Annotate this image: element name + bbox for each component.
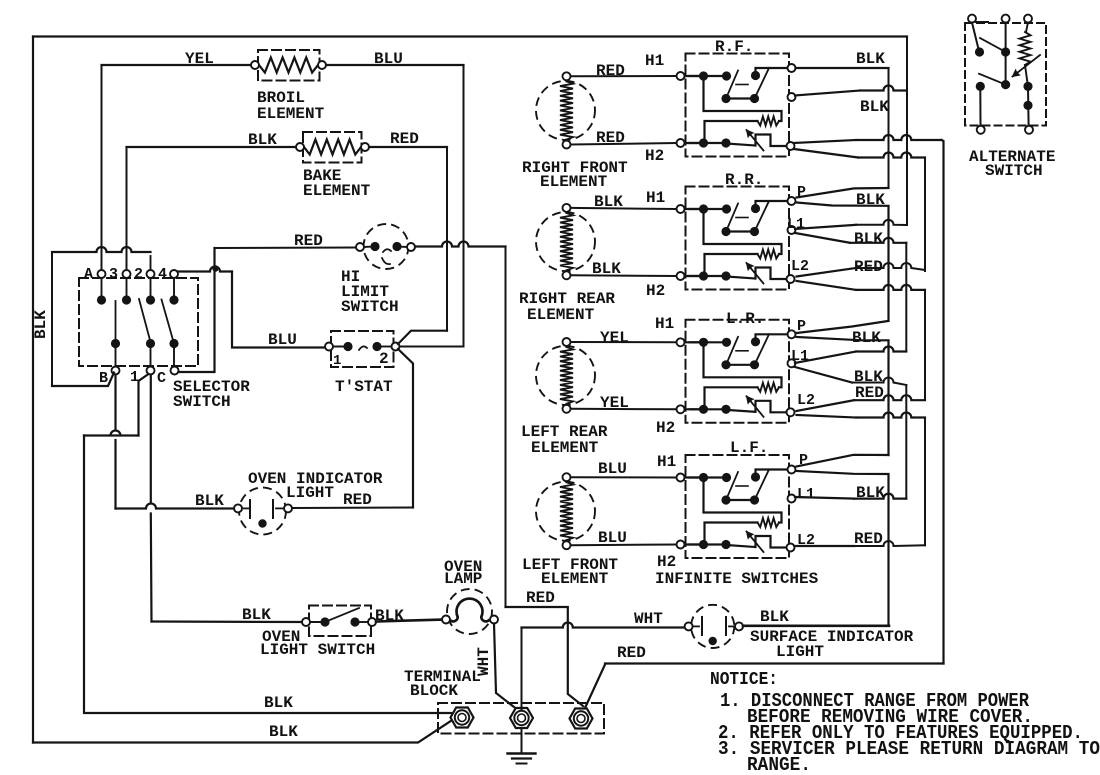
wire: R.F. L2 lower to bus x=925 (794, 149, 925, 158)
wire: t'stat terminal 2 branch up to bake RED (398, 331, 447, 344)
selector blades (116, 299, 175, 344)
wire labels BLK (592, 171, 763, 300)
label OVEN INDICATOR LIGHT (248, 470, 383, 502)
svg-text:BLK: BLK (269, 723, 298, 741)
svg-text:BLU: BLU (268, 331, 297, 349)
wire: R.R. L2 lower starts x=925 segment 2 (797, 281, 926, 400)
wire: selector B down to oven indicator (hop at y=435) (114, 375, 116, 509)
label RIGHT REAR ELEMENT (519, 290, 615, 324)
svg-text:A: A (84, 266, 93, 283)
R.F. terminal L2 (787, 142, 795, 150)
svg-text:WHT: WHT (634, 610, 663, 628)
resistor: BAKE ELEMENT (296, 132, 369, 163)
bus vertical x=925 segment 1 (924, 158, 926, 272)
wire: lamp to terminal lug 2 (494, 624, 514, 708)
selector top terminals A 3 2 4 (98, 256, 179, 296)
R.R. adjustment arrow (747, 263, 764, 284)
svg-text:H1: H1 (645, 52, 664, 70)
svg-text:H1: H1 (655, 315, 674, 333)
wire: element to R.F. H2 (571, 143, 677, 145)
component: OVEN LIGHT SWITCH (302, 606, 376, 637)
wire: element to L.F. H1 (571, 476, 677, 478)
svg-text:RED: RED (854, 258, 883, 276)
terminal lug 2 (404, 15, 1100, 775)
ground symbol below lug 2 (508, 730, 536, 764)
labels A 3 2 4 (84, 266, 167, 283)
labels 1 2 inside t'stat (333, 350, 389, 369)
node: selector feed wire (y=252) with hops (52, 247, 151, 252)
wire: L.F. L1 BLK joins x=906 seg3 end (795, 494, 906, 499)
svg-text:H1: H1 (657, 453, 676, 471)
wire: inner BLK vertical from selector feed (51, 252, 53, 386)
svg-text:RED: RED (617, 644, 646, 662)
svg-text:RED: RED (596, 62, 625, 80)
svg-text:RANGE.: RANGE. (747, 754, 811, 775)
svg-text:H2: H2 (646, 282, 665, 300)
wire labels YEL (600, 310, 764, 437)
wire: L.R. P lower starts x=888 segment 3 (797, 337, 889, 455)
wire: L.R. L2 upper RED joins x=925 seg2 end (797, 395, 926, 411)
svg-text:LIGHT: LIGHT (776, 643, 824, 661)
wire: R.R. L1 lower BLK starts x=906 segment 2 (795, 233, 906, 351)
svg-text:4: 4 (158, 266, 167, 283)
R.F. terminal P (788, 64, 796, 72)
L.R. adjustment arrow (747, 396, 764, 417)
wire: RED from bake element (369, 146, 447, 148)
wire: R.F. L2 upper to far bus (794, 135, 942, 143)
R.F. contacts and blades (686, 68, 789, 103)
svg-text:BLK: BLK (592, 260, 621, 278)
component: SURFACE INDICATOR LIGHT (685, 605, 743, 648)
L.F. contacts and blades (686, 470, 789, 505)
wire: RED bus elbow to lug 3 (506, 607, 584, 706)
svg-text:LAMP: LAMP (444, 570, 482, 588)
svg-text:RED: RED (343, 491, 372, 509)
svg-text:YEL: YEL (600, 329, 629, 347)
selector pole contacts (upper dots) (97, 295, 179, 304)
L.R. terminal P (788, 330, 796, 338)
svg-text:H2: H2 (657, 553, 676, 571)
L.R. H2 blade with adjust arrow (686, 401, 787, 414)
svg-text:BLK: BLK (32, 310, 50, 339)
wire: L.F. P lower starts x=888 segment 4 (797, 471, 889, 626)
wire: L.R. L1 upper joins x=906 seg2 end (795, 347, 906, 364)
component: ALTERNATE SWITCH dashed box (965, 23, 1046, 126)
svg-text:BLK: BLK (856, 484, 885, 502)
wire: BLK run to oven light switch (152, 620, 303, 623)
wire: R.R. L1 upper joins x=906 (795, 220, 906, 229)
component: OVEN LAMP (442, 589, 498, 634)
label BAKE ELEMENT (303, 167, 371, 200)
svg-text:H1: H1 (646, 189, 665, 207)
wire: selector 1 down to oven light switch (150, 375, 153, 622)
label OVEN LIGHT SWITCH (242, 606, 404, 659)
svg-text:BLK: BLK (195, 492, 224, 510)
component: HI LIMIT SWITCH (356, 224, 415, 269)
L.F. terminal H1 (677, 474, 700, 482)
svg-text:RED: RED (596, 129, 625, 147)
L.R. bimetal heater resistor (704, 342, 782, 409)
svg-text:L2: L2 (797, 392, 815, 409)
wire: L.F. P upper BLK joins x=888 seg3 end (797, 455, 889, 467)
svg-text:SWITCH: SWITCH (985, 162, 1043, 180)
wire: BLK to indicator (hop over oven-light drop) (116, 504, 235, 509)
label ALTERNATE SWITCH (969, 148, 1055, 180)
svg-text:RED: RED (294, 232, 323, 250)
wire: selector B blade to left BLK (52, 373, 114, 387)
svg-text:NOTICE:: NOTICE: (710, 670, 778, 690)
wire: element to R.F. H1 (571, 75, 677, 77)
label T'STAT (335, 378, 393, 396)
svg-text:L1: L1 (797, 486, 815, 503)
svg-text:LIGHT: LIGHT (286, 484, 334, 502)
selector bottom terminals B 1 C (112, 367, 179, 375)
labels P L1 L2 (R.R.) (787, 184, 815, 549)
wire: BLU vertical down to t'stat (463, 65, 465, 347)
alternate switch adjust arrow (1013, 55, 1041, 77)
R.R. terminal L2 (787, 275, 795, 283)
wire: t'stat terminal 2 down to oven indicator RED (398, 349, 413, 508)
wire: RED from indicator to t'stat riser (292, 507, 413, 510)
svg-text:BLOCK: BLOCK (410, 682, 458, 700)
selector lower contacts (111, 339, 179, 366)
wire: RED selector-to-hi-limit run (215, 247, 357, 250)
R.R. terminal P (788, 197, 796, 205)
svg-text:3: 3 (109, 266, 118, 283)
svg-text:L1: L1 (787, 216, 805, 233)
svg-text:2: 2 (134, 266, 143, 283)
L.R. terminal H1 (677, 338, 700, 346)
wire: element to L.R. H2 (571, 408, 677, 411)
svg-text:BLK: BLK (760, 608, 789, 626)
wire: selector C to RED riser (179, 248, 215, 372)
component: SELECTOR SWITCH dashed box (79, 278, 198, 366)
svg-text:ELEMENT: ELEMENT (531, 439, 599, 457)
svg-text:BLK: BLK (264, 694, 293, 712)
svg-text:BLK: BLK (854, 230, 883, 248)
svg-text:P: P (797, 184, 806, 201)
svg-text:BLK: BLK (860, 98, 889, 116)
wire: BLU from broil element (326, 64, 464, 66)
wire labels RED (596, 38, 753, 165)
label LEFT FRONT ELEMENT (522, 556, 618, 588)
wire: YEL corner down to selector A (101, 65, 103, 270)
wire: inner BLK vertical to lug 1 (84, 436, 456, 716)
R.F. adjustment arrow (747, 130, 764, 151)
infinite switch L.R. (dashed box) (686, 320, 790, 423)
R.F. terminal H2 (677, 139, 700, 147)
alternate switch pole 2 (976, 23, 1011, 126)
svg-text:ELEMENT: ELEMENT (541, 570, 609, 588)
svg-text:H2: H2 (645, 147, 664, 165)
heating element LR (dashed circle + resistor) (536, 338, 595, 413)
svg-text:RED: RED (390, 130, 419, 148)
wire: t'stat terminal 2 straight to broil BLU (400, 346, 464, 348)
label HI LIMIT SWITCH (341, 268, 399, 316)
wire: R.F. L1 BLK to bus (hop) (795, 86, 906, 96)
svg-text:YEL: YEL (600, 394, 629, 412)
wire: BLK oven light switch to lamp (376, 620, 446, 622)
L.F. H2 blade with adjust arrow (686, 536, 787, 549)
R.R. terminal H2 (677, 272, 700, 280)
wire: element to L.R. H1 (571, 341, 677, 343)
wire: lower-left run with hop over B wire (84, 431, 139, 436)
wire: top supply run L1 (border top) (33, 35, 907, 37)
wire: left border down (32, 37, 34, 743)
L.R. contacts and blades (686, 334, 789, 369)
bus vertical x=888 segment 1 (888, 68, 890, 188)
svg-text:BLK: BLK (852, 329, 881, 347)
wire: bottom BLK run to terminal block lug 1 (33, 720, 453, 743)
label OVEN LAMP (444, 558, 482, 588)
svg-text:RED: RED (855, 384, 884, 402)
infinite switch L.F. (dashed box) (686, 455, 790, 558)
L.R. terminal L1 (788, 359, 796, 367)
svg-text:H2: H2 (656, 419, 675, 437)
R.R. H2 blade with adjust arrow (686, 268, 787, 281)
wire: L.R. L2 lower starts x=925 segment 3 (797, 413, 926, 546)
svg-text:ELEMENT: ELEMENT (527, 306, 595, 324)
svg-text:BLU: BLU (598, 460, 627, 478)
terminal lug 3 (404, 15, 1100, 775)
wire: RED vertical down to t'stat branch (446, 147, 448, 331)
wire labels BLU (598, 439, 768, 571)
svg-text:T'STAT: T'STAT (335, 378, 393, 396)
L.F. terminal L2 (787, 544, 795, 552)
wire: BLK surface indicator to bus (743, 624, 889, 627)
wire: WHT from lug 2 to surface indicator (hop over RED) (522, 623, 685, 711)
infinite switch R.F. (dashed box) (686, 54, 790, 157)
wire: RED bus vertical (hi-limit to terminal block) (505, 247, 507, 608)
component: T'STAT dashed box (331, 331, 394, 367)
wire: R.R. P lower starts bus x=888 segment 2 (797, 203, 889, 321)
label RIGHT FRONT ELEMENT (522, 159, 628, 191)
svg-text:1: 1 (333, 353, 341, 369)
L.R. terminal L2 (787, 408, 795, 416)
L.F. terminal L1 (788, 495, 796, 503)
R.F. H2 blade with adjust arrow (686, 135, 787, 148)
R.F. terminal L1 (788, 93, 796, 101)
L.F. bimetal heater resistor (704, 478, 782, 545)
svg-text:ELEMENT: ELEMENT (257, 105, 325, 123)
component: OVEN INDICATOR LIGHT (234, 488, 292, 535)
wire: top run corner down to R.F. L1 node (906, 37, 908, 226)
svg-text:SWITCH: SWITCH (173, 393, 231, 411)
svg-text:SURFACE INDICATOR: SURFACE INDICATOR (750, 628, 914, 646)
wire: L.R. P upper BLK joins x=888 (797, 321, 889, 333)
R.F. terminal H1 (677, 72, 700, 80)
svg-text:BLK: BLK (594, 193, 623, 211)
bus vertical x=943 (RED chain to bottom right) (942, 140, 944, 664)
heating element LF (dashed circle + resistor) (536, 473, 595, 549)
svg-text:INFINITE SWITCHES: INFINITE SWITCHES (655, 570, 819, 588)
heating element RR (dashed circle + resistor) (536, 204, 595, 279)
svg-text:BLK: BLK (856, 50, 885, 68)
label INFINITE SWITCHES (655, 570, 819, 588)
alternate switch bottom terminals (977, 126, 1033, 134)
alternate switch top terminals (968, 15, 1032, 23)
component: TERMINAL BLOCK dashed box (438, 703, 604, 734)
svg-text:BLK: BLK (248, 131, 277, 149)
label NOTICE block (710, 670, 1100, 775)
label SURFACE INDICATOR LIGHT (750, 608, 914, 661)
wire: R.F. P BLK to bus (796, 67, 889, 69)
L.R. terminal H2 (677, 405, 700, 413)
svg-text:RED: RED (526, 589, 555, 607)
wire: BLK corner down to selector 3 (126, 147, 128, 270)
wire: element to R.R. H1 (571, 208, 677, 209)
svg-text:BLK: BLK (242, 606, 271, 624)
label TERMINAL BLOCK (404, 668, 481, 700)
svg-text:ELEMENT: ELEMENT (303, 182, 371, 200)
resistor: BROIL ELEMENT (251, 50, 326, 81)
R.R. terminal L1 (788, 226, 796, 234)
svg-text:RED: RED (854, 530, 883, 548)
svg-text:SWITCH: SWITCH (341, 298, 399, 316)
alternate switch resistor leg (1020, 23, 1033, 126)
svg-text:B: B (99, 370, 108, 387)
wire: element to L.F. H2 (571, 544, 677, 547)
svg-text:LIGHT SWITCH: LIGHT SWITCH (260, 641, 375, 659)
svg-text:C: C (157, 370, 166, 387)
wire: element to R.R. H2 (571, 274, 677, 277)
label SELECTOR SWITCH (173, 378, 250, 411)
svg-text:YEL: YEL (185, 50, 214, 68)
L.F. adjustment arrow (747, 532, 764, 553)
L.F. terminal H2 (677, 541, 700, 549)
label LEFT REAR ELEMENT (521, 423, 608, 457)
wire: R.R. P upper BLK joins x=888 (797, 188, 889, 198)
labels B 1 C (99, 369, 166, 387)
label BROIL ELEMENT (257, 89, 325, 123)
wire: hi-limit to RED bus with hops (415, 242, 506, 247)
svg-text:2: 2 (379, 350, 389, 368)
t'stat contacts (325, 342, 400, 351)
wire: R.R. L2 upper RED joins x=925 (797, 263, 926, 277)
wire: YEL run to broil element (102, 64, 256, 66)
svg-text:BLU: BLU (374, 50, 403, 68)
R.F. bimetal heater resistor (704, 76, 782, 143)
wire: BLU branch down to t'stat (232, 272, 325, 348)
terminal lug 1 (404, 15, 1100, 775)
wire: L.R. L1 lower BLK starts x=906 segment 3 (795, 367, 906, 499)
wire: RED from lug 3 to right bus (585, 664, 944, 709)
wire: BLK run to bake element (127, 146, 301, 148)
R.R. bimetal heater resistor (704, 209, 782, 276)
wire: selector 4 to BLU branch with hop (178, 267, 232, 272)
wire: L.F. L2 RED joins x=925 seg3 end (795, 541, 926, 546)
svg-text:ELEMENT: ELEMENT (540, 173, 608, 191)
L.F. terminal P (788, 466, 796, 474)
heating element RF (dashed circle + resistor) (536, 72, 595, 148)
infinite switch R.R. (dashed box) (686, 187, 790, 290)
alternate switch pole 1 (972, 23, 1006, 57)
R.R. contacts and blades (686, 201, 789, 236)
R.R. terminal H1 (677, 205, 700, 213)
svg-text:L2: L2 (791, 258, 809, 275)
svg-text:BLU: BLU (598, 529, 627, 547)
wire: selector 1 blade to lower-left run (139, 374, 149, 436)
